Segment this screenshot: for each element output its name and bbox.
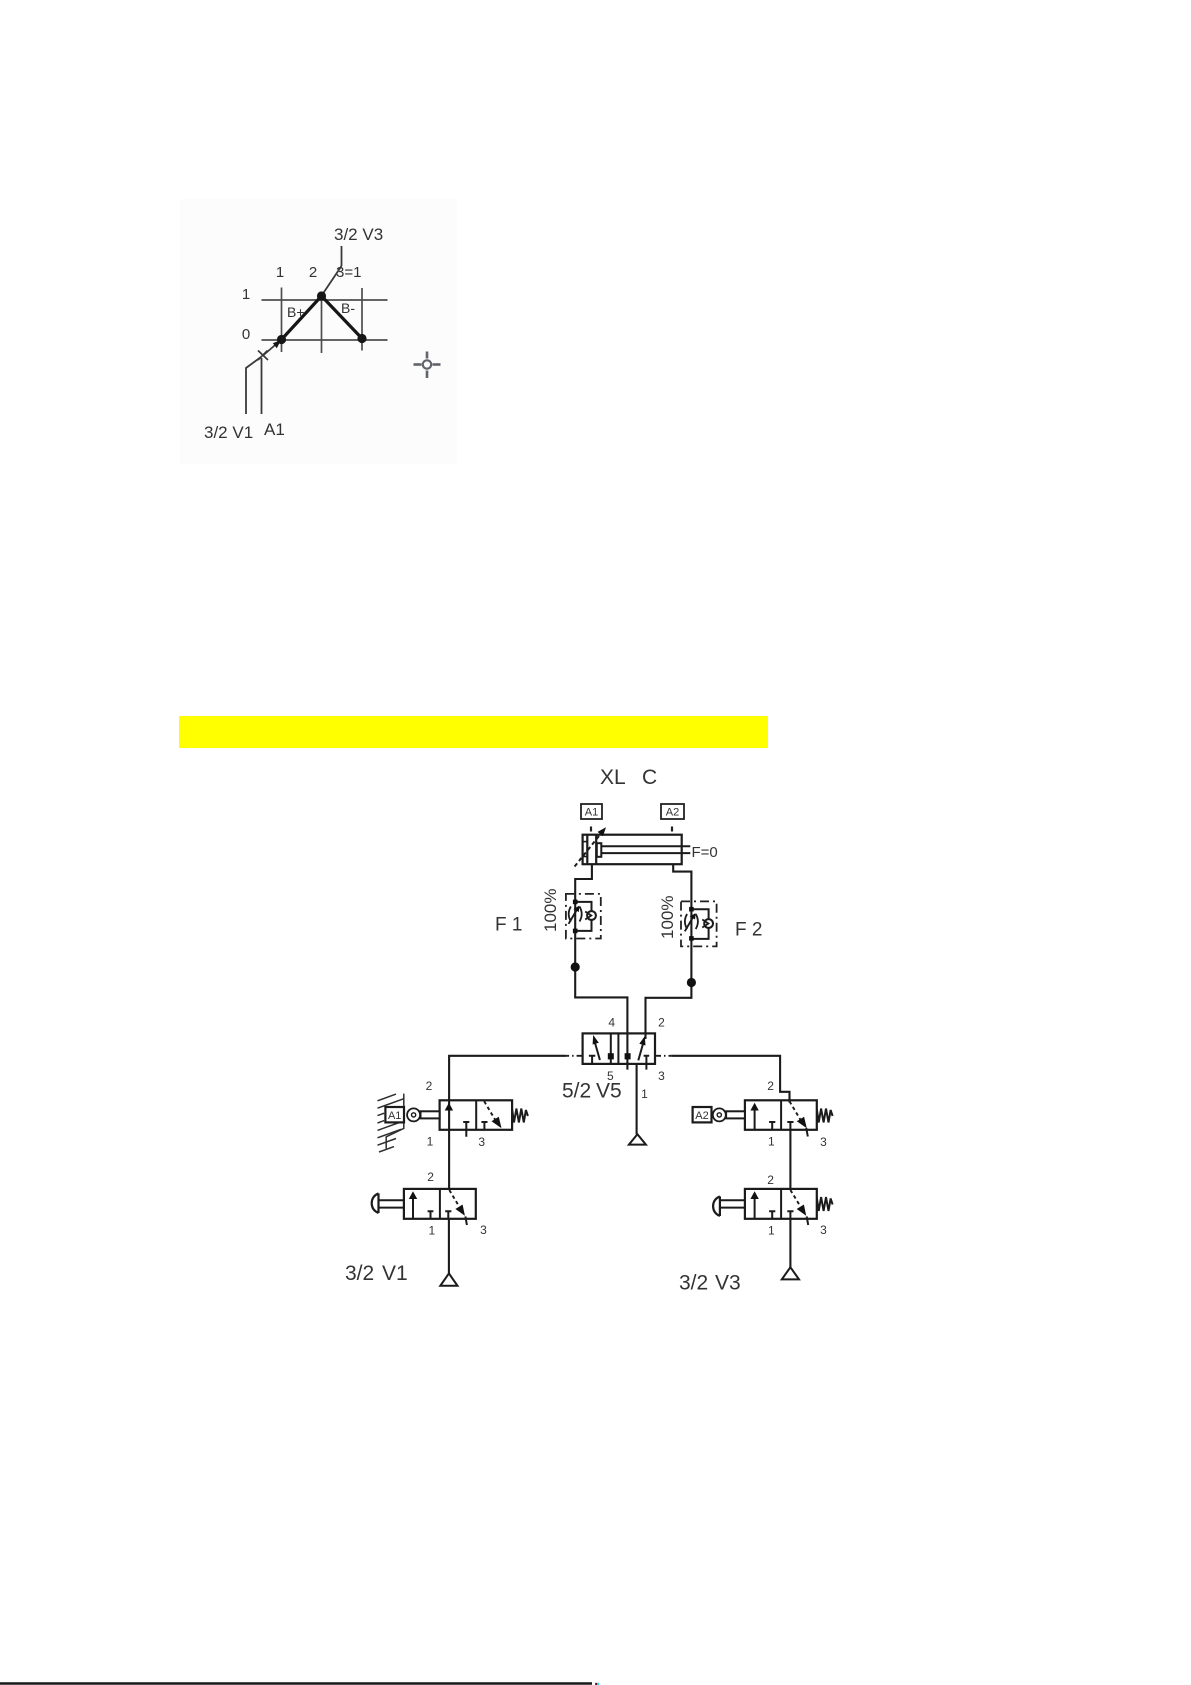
svg-text:2: 2 <box>427 1170 434 1184</box>
A1 limit valve flow arrow 1-2 <box>445 1103 453 1111</box>
wire cylinder A1 port to F1 <box>575 864 627 1069</box>
valve V5 plugged junction right <box>625 1053 631 1059</box>
wire diagonal to step 2 node <box>322 266 342 295</box>
start arrowhead <box>273 340 281 348</box>
svg-text:2: 2 <box>767 1173 774 1187</box>
wire V3 port 1 to exhaust <box>789 1219 791 1267</box>
roller plunger (A1 limit valve) <box>421 1111 440 1118</box>
node A2 marker box <box>661 804 684 819</box>
yellow highlight bar <box>179 716 768 748</box>
svg-text:2: 2 <box>658 1016 665 1030</box>
exhaust under valve V3 <box>782 1267 799 1279</box>
valve V3 blocked port left cell <box>769 1211 775 1219</box>
valve V1 blocked port right cell <box>445 1211 451 1219</box>
roller (A2 limit valve) <box>713 1108 726 1121</box>
svg-text:0: 0 <box>242 326 250 343</box>
cylinder piston <box>597 843 602 857</box>
A2 position tick <box>671 827 673 832</box>
svg-text:F=0: F=0 <box>692 844 718 861</box>
valve V3 body 3/2 pushbutton <box>745 1189 817 1219</box>
start arrow wire <box>263 343 278 356</box>
wire from 3/2 V3 label <box>341 246 343 266</box>
svg-text:1: 1 <box>242 286 250 303</box>
svg-text:B+: B+ <box>287 304 305 320</box>
valve V5 left position flow arrow 1-4 <box>595 1042 600 1061</box>
svg-text:1: 1 <box>768 1224 775 1238</box>
svg-text:100%: 100% <box>541 889 560 932</box>
level 0 grid line <box>262 339 388 341</box>
valve V5 plugged junction left <box>608 1053 614 1059</box>
valve V1 flow arrow 1-2 <box>412 1196 414 1219</box>
trace B+ <box>282 296 322 340</box>
valve V5 left position blocked port <box>589 1056 595 1064</box>
spring return (A1 limit valve) <box>512 1109 528 1123</box>
node A1 tag on wall <box>385 1107 404 1122</box>
pilot line left dash-dot <box>566 1055 582 1057</box>
wire pilot left to valve A1-limit <box>449 1056 566 1190</box>
grid vertical step 1 <box>281 288 283 353</box>
svg-text:3/2: 3/2 <box>345 1262 374 1285</box>
step diagram background panel <box>180 199 457 464</box>
node step1 <box>277 335 286 344</box>
valve V3 flow arrow 1-2 <box>754 1196 756 1219</box>
spring return (valve V3) <box>817 1197 833 1211</box>
node step3 <box>357 334 366 343</box>
roller plunger (A2 limit valve) <box>726 1111 745 1118</box>
wire V1 port 1 to exhaust <box>448 1219 450 1274</box>
svg-text:3: 3 <box>480 1223 487 1237</box>
valve V3 blocked port right cell <box>787 1211 793 1219</box>
trace B- <box>322 296 363 339</box>
svg-text:3: 3 <box>478 1135 485 1149</box>
A2 limit valve right cell flow path 2-3 <box>790 1101 801 1119</box>
pushbutton actuator (valve V1) <box>372 1193 379 1213</box>
A1 limit valve blocked port left cell <box>463 1122 469 1137</box>
wire V5 port 1 to exhaust <box>636 1064 638 1134</box>
wire pilot right to valve A2-limit <box>671 1056 789 1103</box>
svg-text:F 2: F 2 <box>735 920 762 941</box>
junction on F1 line <box>571 962 580 971</box>
exhaust under valve V1 <box>440 1273 457 1285</box>
exhaust silencer under V5 <box>629 1134 646 1144</box>
svg-text:A1: A1 <box>388 1110 401 1122</box>
svg-text:V1: V1 <box>382 1262 408 1285</box>
A1 limit valve blocked port right cell <box>481 1122 487 1130</box>
svg-text:3/2 V1: 3/2 V1 <box>204 423 253 442</box>
svg-text:XL: XL <box>600 766 626 789</box>
svg-text:A1: A1 <box>585 807 598 819</box>
A1 position tick <box>590 827 592 832</box>
pilot line right dash-dot <box>655 1055 671 1057</box>
svg-text:4: 4 <box>608 1016 615 1030</box>
svg-text:F 1: F 1 <box>495 915 522 936</box>
svg-text:A2: A2 <box>666 807 679 819</box>
cam wall hatching <box>378 1094 404 1152</box>
label 5/2 V5 <box>562 1080 622 1103</box>
svg-text:A2: A2 <box>695 1110 708 1122</box>
spring return (A2 limit valve) <box>817 1109 833 1123</box>
svg-text:3/2 V3: 3/2 V3 <box>334 225 383 244</box>
crosshair cursor icon <box>414 352 441 379</box>
cylinder piston rod <box>601 846 690 853</box>
x mark on start wire <box>258 351 268 361</box>
label 3/2 V1 <box>345 1262 408 1285</box>
valve V1 right cell flow path 2-3 <box>449 1190 458 1206</box>
svg-text:V5: V5 <box>596 1080 622 1103</box>
svg-text:3: 3 <box>820 1223 827 1237</box>
A2 limit valve flow arrow 1-2 <box>754 1107 756 1130</box>
level 1 grid line <box>262 299 388 301</box>
svg-text:1: 1 <box>428 1224 435 1238</box>
wire A1 lead <box>261 358 263 414</box>
flow control valve F2 <box>681 901 717 946</box>
footer cursor mark <box>595 1683 597 1685</box>
valve A2-limit body 3/2 <box>745 1100 817 1130</box>
svg-text:1: 1 <box>768 1135 775 1149</box>
grid vertical step 2 <box>321 300 323 354</box>
cylinder C body <box>583 835 682 865</box>
A2 limit valve blocked port right cell <box>787 1122 793 1130</box>
svg-text:2: 2 <box>426 1079 433 1093</box>
svg-text:1: 1 <box>641 1087 648 1101</box>
cylinder cushion adjust arrow <box>575 834 601 867</box>
flow control valve F1 <box>566 894 601 939</box>
svg-text:100%: 100% <box>658 896 677 939</box>
A2 limit valve blocked port left cell <box>769 1122 775 1130</box>
valve V1 body 3/2 pushbutton <box>404 1189 476 1219</box>
svg-text:1: 1 <box>427 1135 434 1149</box>
label XL C (cylinder title) <box>600 766 657 789</box>
node A2 tag <box>693 1107 712 1122</box>
valve V5 right position flow arrow 1-2 <box>638 1043 643 1061</box>
valve V1 blocked port left cell <box>428 1211 434 1219</box>
svg-text:3=1: 3=1 <box>336 264 361 281</box>
valve V5 body 5/2 <box>583 1033 655 1064</box>
svg-text:2: 2 <box>767 1079 774 1093</box>
svg-text:1: 1 <box>276 264 284 281</box>
valve A1-limit body 3/2 <box>440 1100 512 1130</box>
label 3/2 V3 <box>679 1272 741 1295</box>
svg-text:3/2: 3/2 <box>679 1272 708 1295</box>
wire A2 limit valve to valve V3 <box>789 1130 791 1190</box>
roller (A1 limit valve) <box>407 1108 420 1121</box>
svg-text:2: 2 <box>309 264 317 281</box>
wire cylinder A2 port to F2 <box>646 864 692 1039</box>
svg-text:3: 3 <box>658 1069 665 1083</box>
node step2 <box>317 291 326 300</box>
wire 3/2 V1 lead <box>246 357 261 414</box>
node A1 marker box <box>581 804 602 819</box>
svg-text:V3: V3 <box>715 1272 741 1295</box>
junction on F2 line <box>687 978 696 987</box>
valve V5 right position blocked port <box>644 1056 650 1070</box>
svg-text:B-: B- <box>341 300 355 316</box>
svg-text:3: 3 <box>820 1135 827 1149</box>
svg-text:5/2: 5/2 <box>562 1080 591 1103</box>
valve V3 right cell flow path 2-3 <box>790 1190 800 1206</box>
A1 limit valve right cell flow path 2-3 <box>484 1101 495 1119</box>
pushbutton actuator (valve V3) <box>713 1196 720 1216</box>
page footer rule <box>0 1682 592 1685</box>
grid vertical step 3 <box>361 288 363 351</box>
svg-text:A1: A1 <box>264 420 285 439</box>
svg-text:C: C <box>642 766 657 789</box>
